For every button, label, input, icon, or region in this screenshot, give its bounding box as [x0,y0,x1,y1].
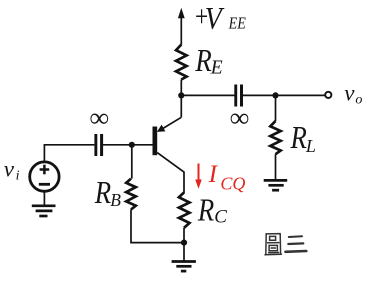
svg-text:E: E [210,58,223,79]
svg-text:∞: ∞ [230,103,249,133]
wire RL to ground [275,154,277,180]
capacitor C1 (input, infinite) [94,134,103,156]
svg-text:R: R [94,176,111,210]
wire node A to output cap [181,94,234,96]
wire node C to RL [275,95,277,121]
node B (base / RB junction) [129,142,135,148]
svg-text:v: v [344,80,355,105]
resistor RB [126,179,136,210]
svg-text:B: B [110,190,121,210]
minus sign [39,183,50,186]
svg-text:∞: ∞ [90,103,109,133]
svg-text:i: i [16,168,20,183]
node C (output / RL junction) [272,92,278,98]
ground (below source) [32,206,56,216]
ground (bottom) [172,262,196,272]
plus sign [40,165,50,175]
wire C1 to source [44,145,94,162]
svg-text:C: C [214,207,227,228]
svg-text:L: L [305,136,316,156]
caption character 圖 [265,234,281,255]
svg-text:v: v [4,157,15,182]
svg-text:CQ: CQ [220,173,245,193]
svg-text:o: o [355,93,362,108]
svg-text:R: R [194,44,211,78]
base wire from input [103,144,153,146]
wire supply lead [180,15,182,45]
node A (emitter/output junction) [178,92,184,98]
resistor RE [176,45,187,80]
svg-text:R: R [197,194,214,228]
wire source to ground [43,191,45,206]
wire RB to bottom rail [131,210,184,243]
caption character 三 [286,236,307,252]
collector lead [157,153,184,193]
source vi circle [30,162,59,191]
resistor RL [270,121,280,154]
wire cap to output terminal [243,94,325,96]
wire RC to bottom node [183,228,185,261]
red current arrow ICQ [198,164,200,183]
svg-text:EE: EE [228,14,247,32]
output terminal circle [325,92,331,98]
emitter lead with arrow [161,117,182,130]
wire node B to RB [131,145,133,179]
capacitor C2 (output, infinite) [234,85,243,107]
supply arrowhead [178,8,185,18]
svg-text:R: R [290,121,307,155]
ground (below RL) [264,180,288,190]
wire RE to emitter corner [180,80,182,118]
resistor RC [179,193,190,228]
transistor Q1 (pnp) base bar [153,127,158,156]
node D (bottom rail junction) [181,240,187,246]
